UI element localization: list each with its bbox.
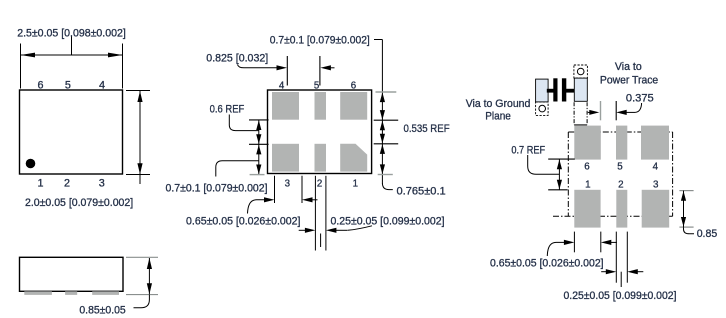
- left dimension column (0.6 REF / 0.7 pad height): [249, 120, 269, 175]
- side pad right: [92, 291, 119, 295]
- pad labels 3 2 1 (bottom): [285, 178, 358, 189]
- power trace (dash-dot column): [574, 102, 587, 125]
- extension lines below pad 3: [275, 176, 303, 203]
- svg-text:0.25±0.05 [0.099±0.002]: 0.25±0.05 [0.099±0.002]: [564, 290, 677, 302]
- 0.65 arrows (middle): [248, 197, 318, 213]
- dimension text 0.7±0.1 (top): [270, 35, 370, 47]
- svg-text:3: 3: [285, 178, 290, 189]
- pad 4: [272, 92, 299, 120]
- dimension text 0.375: [626, 92, 654, 104]
- extension lines below pad 2 (right): [616, 232, 627, 283]
- dimension 0.7 REF arrows: [528, 155, 575, 190]
- ground via (dashed square with circle): [536, 102, 549, 116]
- svg-text:1: 1: [585, 179, 590, 190]
- side pad middle: [65, 291, 77, 295]
- svg-text:0.535 REF: 0.535 REF: [404, 123, 450, 135]
- svg-text:0.6 REF: 0.6 REF: [210, 103, 245, 115]
- power pad (blue): [574, 78, 587, 101]
- svg-text:2: 2: [64, 178, 70, 190]
- dimension text 2.0±0.05: [25, 197, 133, 209]
- package outline (top view): [20, 90, 123, 174]
- svg-text:3: 3: [653, 179, 659, 190]
- dimension text 0.765±0.1: [397, 185, 446, 197]
- pad 1 (chamfered): [340, 144, 367, 172]
- svg-text:0.765±0.1: 0.765±0.1: [397, 185, 446, 197]
- side pad left: [24, 291, 52, 295]
- svg-text:Plane: Plane: [485, 111, 511, 123]
- dimension text 2.5±0.05: [17, 27, 126, 39]
- pad 2 (right layout): [616, 190, 627, 228]
- pin 1 indicator dot: [26, 159, 36, 169]
- pad 1 (right layout): [574, 190, 600, 228]
- svg-text:0.7±0.1 [0.079±0.002]: 0.7±0.1 [0.079±0.002]: [166, 183, 268, 195]
- pad 4 (right layout): [641, 126, 669, 160]
- dimension 0.375 arrows: [588, 101, 642, 120]
- height dimension 0.85: [126, 257, 158, 308]
- 0.25 arrows (right): [601, 269, 643, 287]
- pad labels 6 5 4 (right layout): [584, 161, 658, 172]
- svg-text:0.25±0.05 [0.099±0.002]: 0.25±0.05 [0.099±0.002]: [331, 215, 445, 227]
- width dimension line 2.5: [21, 37, 123, 89]
- ground pad (blue): [536, 79, 549, 102]
- svg-text:0.375: 0.375: [626, 92, 654, 104]
- dimension text 0.7±0.1 (bottom left): [166, 183, 268, 195]
- pad 2: [315, 144, 327, 172]
- svg-text:2: 2: [317, 178, 322, 189]
- pin labels 6 5 4 (top): [37, 79, 105, 91]
- pad 3: [272, 144, 299, 172]
- dimension 0.85 arrows (right): [679, 191, 694, 234]
- dimension text 0.25±0.05 (right): [564, 290, 677, 302]
- svg-text:4: 4: [653, 161, 659, 172]
- 0.25 arrows (middle): [299, 226, 372, 247]
- land pattern outline: [268, 90, 372, 174]
- bypass capacitor C1: [547, 78, 575, 101]
- leader from 0.7 top label: [374, 39, 382, 41]
- svg-text:0.825 [0.032]: 0.825 [0.032]: [206, 53, 268, 65]
- pad 3 (right layout): [642, 190, 670, 228]
- pad labels 1 2 3 (right layout): [585, 179, 659, 190]
- svg-text:6: 6: [584, 161, 590, 172]
- dimension text 0.65±0.05 (right): [490, 258, 604, 270]
- pad labels 4 5 6 (top): [279, 80, 356, 91]
- package outline (dashed): [553, 132, 673, 216]
- package outline (side view): [20, 257, 124, 291]
- pad 5 (right layout): [616, 126, 627, 160]
- svg-text:0.65±0.05 [0.026±0.002]: 0.65±0.05 [0.026±0.002]: [490, 258, 604, 270]
- dimension text 0.85 (right): [697, 228, 718, 240]
- pad 6 (right layout): [574, 126, 601, 160]
- svg-text:4: 4: [279, 80, 285, 91]
- pin labels 1 2 3 (bottom): [37, 178, 104, 190]
- svg-text:3: 3: [99, 178, 105, 190]
- label Via to Ground Plane: [466, 98, 531, 123]
- dimension text 0.6 REF: [210, 103, 245, 115]
- svg-text:5: 5: [314, 80, 319, 91]
- dimension text 0.65±0.05 (middle): [186, 215, 301, 227]
- svg-text:0.85±0.05: 0.85±0.05: [79, 304, 125, 316]
- 0.65 arrows (right): [547, 240, 617, 256]
- power via (dashed square with circle): [574, 65, 588, 78]
- svg-text:Power Trace: Power Trace: [600, 74, 658, 86]
- dimension text 0.535 REF: [404, 123, 450, 135]
- svg-text:5: 5: [617, 161, 623, 172]
- extension lines below pad 1 (right): [574, 232, 600, 253]
- dimension 0.825 arrows and ticks: [238, 56, 335, 86]
- svg-text:1: 1: [353, 178, 358, 189]
- dimension text 0.85±0.05: [79, 304, 125, 316]
- svg-text:0.85: 0.85: [697, 228, 718, 240]
- svg-text:2: 2: [618, 179, 623, 190]
- dimension text 0.25±0.05 (middle): [331, 215, 445, 227]
- svg-text:6: 6: [37, 79, 43, 91]
- pad 6: [340, 92, 367, 120]
- right dimension column (0.7 / 0.535 / 0.765): [374, 40, 399, 190]
- leader to bottom-left 0.7 label: [216, 161, 259, 177]
- svg-text:0.7±0.1 [0.079±0.002]: 0.7±0.1 [0.079±0.002]: [270, 35, 370, 47]
- extension lines below pad 2: [315, 176, 326, 251]
- height dimension line 2.0: [126, 91, 150, 185]
- svg-text:1: 1: [37, 178, 43, 190]
- leader from 0.6 REF: [229, 115, 258, 131]
- svg-text:0.65±0.05 [0.026±0.002]: 0.65±0.05 [0.026±0.002]: [186, 215, 301, 227]
- svg-text:6: 6: [351, 80, 356, 91]
- label Via to Power Trace: [600, 61, 658, 86]
- svg-text:2.0±0.05 [0.079±0.002]: 2.0±0.05 [0.079±0.002]: [25, 197, 133, 209]
- pad 5: [315, 92, 327, 120]
- svg-text:0.7 REF: 0.7 REF: [511, 144, 545, 156]
- svg-text:4: 4: [99, 79, 105, 91]
- svg-text:Via to: Via to: [615, 61, 642, 73]
- svg-text:Via to Ground: Via to Ground: [466, 98, 531, 110]
- svg-text:5: 5: [65, 79, 71, 91]
- dimension text 0.7 REF (right): [511, 144, 545, 156]
- dimension text 0.825: [206, 53, 268, 65]
